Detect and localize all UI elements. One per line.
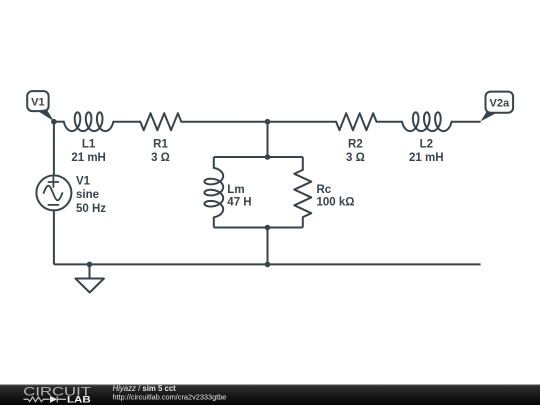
wire parallel block bottom [214, 227, 303, 229]
svg-text:3 Ω: 3 Ω [346, 152, 365, 164]
svg-text:3 Ω: 3 Ω [151, 152, 170, 164]
svg-text:LAB: LAB [67, 395, 91, 405]
V1 sine wave [44, 186, 63, 201]
svg-text:47 H: 47 H [227, 197, 251, 209]
inductor L1 [64, 112, 113, 131]
voltage source V1 circle [36, 175, 71, 210]
wire left branch upper [53, 122, 55, 176]
wire L2 to V2a corner [452, 121, 481, 123]
ground symbol triangle [75, 279, 104, 293]
wire parallel block top [214, 156, 303, 158]
resistor R2 [336, 113, 376, 130]
svg-text:R1: R1 [153, 138, 168, 150]
V1 minus sign [48, 204, 58, 206]
inductor Lm [204, 168, 223, 217]
svg-text:21 mH: 21 mH [71, 152, 106, 164]
svg-text:sine: sine [76, 189, 99, 201]
wire left branch lower [53, 210, 55, 264]
wire top rail left segment [54, 121, 64, 123]
wire center drop to bottom rail [267, 228, 269, 265]
wire bottom rail [54, 263, 481, 265]
inductor L2 [402, 112, 451, 131]
svg-text:100 kΩ: 100 kΩ [317, 197, 355, 209]
node tag V2a box [486, 92, 514, 113]
svg-text:50 Hz: 50 Hz [76, 203, 106, 215]
node tag V1 box [27, 91, 48, 111]
svg-text:21 mH: 21 mH [409, 152, 444, 164]
wire R2 to L2 [377, 121, 403, 123]
junction node B (top rail center) [265, 119, 271, 125]
node tag V1 pointer [37, 109, 54, 121]
wire center drop from top rail [267, 122, 269, 157]
logo diode triangle [50, 396, 57, 403]
svg-text:V1: V1 [31, 96, 44, 108]
logo diode bar and lead [57, 396, 66, 402]
junction node A (left source node) [51, 119, 57, 125]
svg-text:R2: R2 [348, 138, 363, 150]
resistor Rc [294, 170, 311, 217]
svg-text:V2a: V2a [490, 97, 510, 109]
logo resistor zigzag [24, 397, 50, 402]
svg-text:Lm: Lm [227, 184, 244, 196]
wire Rc bottom lead [302, 217, 304, 227]
junction node C (parallel top) [265, 154, 271, 160]
wire Lm top lead [213, 157, 215, 168]
resistor R1 [140, 113, 181, 130]
wire Rc top lead [302, 157, 304, 170]
junction node E (bottom rail) [265, 262, 271, 268]
svg-text:http://circuitlab.com/cra2v233: http://circuitlab.com/cra2v2333gtbe [113, 392, 227, 401]
svg-text:V1: V1 [76, 175, 91, 187]
svg-text:Rc: Rc [317, 184, 332, 196]
junction node F (ground) [87, 262, 93, 268]
V1 plus sign [48, 177, 58, 187]
wire ground stub [89, 264, 91, 278]
wire L1 to R1 [113, 121, 140, 123]
svg-text:L2: L2 [420, 138, 433, 150]
junction node D (parallel bottom) [265, 225, 271, 231]
wire Lm bottom lead [213, 217, 215, 227]
node tag V2a pointer [481, 112, 498, 122]
svg-text:L1: L1 [82, 138, 96, 150]
wire R1 to R2 through node [181, 121, 336, 123]
